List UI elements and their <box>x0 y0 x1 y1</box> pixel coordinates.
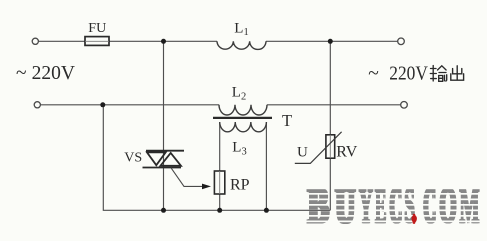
wire top-left segment <box>39 40 85 42</box>
svg-text:O: O <box>441 180 458 236</box>
svg-text:~220V: ~220V <box>368 63 428 84</box>
svg-text:U: U <box>297 145 308 161</box>
wire vertical RV branch <box>329 41 331 210</box>
wire L3 left leg <box>219 123 221 211</box>
wire L3 right leg <box>265 123 267 211</box>
svg-text:T: T <box>282 111 292 130</box>
svg-text:RP: RP <box>230 176 250 193</box>
watermark BUYECS.COM <box>306 177 480 235</box>
svg-text:.: . <box>413 180 417 236</box>
triac VS <box>143 151 185 168</box>
wire second row right <box>267 104 401 106</box>
wiper arrow <box>202 184 211 190</box>
svg-text:RV: RV <box>336 144 357 161</box>
inductor L3 (transformer secondary) <box>220 122 267 132</box>
svg-text:~220V: ~220V <box>16 63 75 84</box>
node dot A (163.5,41.3) <box>161 39 166 44</box>
terminal bottom-left <box>34 102 40 108</box>
wire second row left <box>41 104 219 106</box>
wire fuse to L1 <box>109 40 217 42</box>
svg-text:C: C <box>391 180 403 236</box>
inductor L2 (transformer primary) <box>219 105 267 115</box>
wire L1 to right terminal <box>266 40 398 42</box>
varistor RV <box>326 135 335 158</box>
node dot C (102.8,104.8) <box>100 102 105 107</box>
terminal top-left <box>32 38 38 44</box>
terminal bottom-right <box>401 102 408 109</box>
node dot D (163.5,210) <box>161 208 166 213</box>
svg-text:B: B <box>310 180 331 236</box>
terminal top-right <box>398 38 405 45</box>
wire vertical from node at x163 <box>163 41 165 210</box>
svg-text:Y: Y <box>360 180 374 236</box>
watermark red period solid <box>412 215 417 223</box>
hanzi 出 <box>451 66 464 80</box>
inductor L1 <box>217 41 266 49</box>
wire through fuse <box>85 40 109 42</box>
transformer core T <box>213 117 272 119</box>
potentiometer RP <box>214 171 224 194</box>
node dot F (266.4,210) <box>264 208 269 213</box>
triac gate wire to RP wiper <box>171 168 203 187</box>
node dot E (219.7,210) <box>217 208 222 213</box>
svg-text:M: M <box>460 180 480 236</box>
svg-text:U: U <box>337 180 356 236</box>
svg-text:C: C <box>425 180 437 236</box>
hanzi 输 <box>430 66 446 82</box>
node dot B (330,41.3) <box>328 39 333 44</box>
varistor diagonal with foot, label U <box>295 132 342 164</box>
wire vertical left branch and bottom bus <box>103 105 330 211</box>
svg-text:E: E <box>376 180 387 236</box>
fuse FU <box>85 37 109 46</box>
svg-text:VS: VS <box>124 150 142 165</box>
svg-text:FU: FU <box>88 21 106 36</box>
